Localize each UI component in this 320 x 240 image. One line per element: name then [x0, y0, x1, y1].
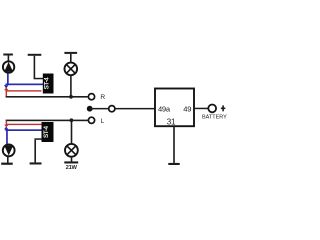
svg-text:49a: 49a	[158, 105, 171, 114]
connector arrow (blue, points down)	[4, 85, 8, 89]
node junction (L feed / lamp E2)	[70, 118, 74, 122]
wire (relay pin 31 down to ground)	[173, 126, 175, 163]
switch box S2 (label ST-4)	[42, 122, 54, 142]
svg-text:21W: 21W	[66, 165, 78, 171]
wire (node L feed, runs to terminal L)	[6, 120, 88, 122]
wire (red drop from L feed)	[6, 121, 7, 125]
svg-text:31: 31	[167, 118, 176, 127]
wire (red link to switch box S1)	[6, 90, 42, 91]
wire (relay pin 49 to battery terminal)	[194, 108, 208, 110]
svg-text:BATTERY: BATTERY	[202, 115, 227, 121]
switch arm wire	[90, 108, 109, 110]
ground G1 (below lamp P2)	[1, 157, 13, 165]
lamp E2 (21W bulb, bottom)	[65, 144, 78, 157]
connector arrow (red, points down)	[4, 125, 8, 128]
wire (jog from T2 into switch box S1)	[34, 78, 43, 80]
ground G3 (below lamp E2)	[64, 157, 78, 164]
wire (L feed down to lamp E2)	[71, 121, 73, 143]
wire (red link to switch box S2)	[6, 124, 42, 125]
wire (lamp E1 down to R feed)	[70, 76, 72, 97]
terminal R (open circle)	[88, 94, 94, 100]
wire (blue feed to switch box S2)	[5, 129, 41, 131]
ground G4 (relay pin 31)	[168, 163, 179, 165]
terminal L (open circle)	[88, 117, 94, 123]
wire (blue lead from lamp P1 down)	[7, 73, 9, 84]
lamp E1 (21W bulb, top)	[65, 63, 78, 76]
svg-text:ST-4: ST-4	[43, 126, 50, 138]
indicator lamp P2 (left-rear turn signal, arrow down)	[3, 145, 15, 157]
connector arrow (blue, points up)	[4, 126, 8, 129]
wire (red drop to R feed wire)	[6, 90, 7, 96]
ground G2 (below switch box S2)	[30, 140, 42, 165]
wire (node R feed, runs to terminal R)	[6, 96, 88, 98]
terminal T1 (supply bar above left indicator lamp)	[3, 54, 13, 62]
wire (blue lead down to lamp P2)	[6, 131, 8, 144]
svg-text:R: R	[100, 94, 105, 101]
wire (blue feed to switch box S1)	[5, 84, 43, 86]
terminal T3 (supply bar above lamp E1)	[64, 52, 77, 62]
indicator lamp P1 (left-front turn signal, arrow up)	[3, 61, 14, 72]
wire (jog from switch box S2 to ground stem)	[34, 138, 41, 140]
terminal T2 (supply bar above switch box)	[28, 54, 42, 79]
switch pivot (open circle)	[109, 106, 115, 112]
switch box S1 (label ST-4)	[43, 74, 54, 94]
connector arrow (red, points up)	[4, 87, 8, 90]
wire (switch to relay pin 49a)	[115, 108, 155, 110]
svg-text:49: 49	[183, 105, 191, 114]
label + (battery positive)	[221, 105, 225, 111]
svg-text:ST-4: ST-4	[44, 77, 51, 89]
flasher relay U1 (box)	[155, 89, 194, 127]
svg-text:L: L	[101, 118, 105, 125]
node junction (R feed / lamp E1)	[69, 95, 73, 99]
battery terminal (open circle)	[208, 105, 216, 113]
switch lever contact (filled dot)	[87, 106, 93, 112]
